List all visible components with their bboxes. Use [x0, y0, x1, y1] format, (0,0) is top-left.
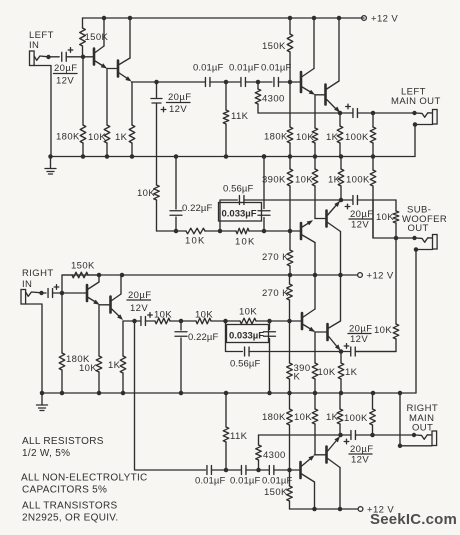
svg-text:0.56µF: 0.56µF — [223, 184, 253, 195]
svg-text:0.01µF: 0.01µF — [229, 63, 259, 74]
node 4300 junction — [256, 468, 261, 473]
node subwoofer mix left — [339, 198, 344, 203]
terminal +12V bottom — [358, 507, 363, 512]
wire ground bus y393 — [42, 392, 416, 394]
transistor Q10 — [326, 324, 329, 340]
resistor R33 4300 — [258, 460, 260, 470]
svg-text:10K: 10K — [294, 412, 312, 423]
svg-text:150K: 150K — [71, 261, 95, 272]
svg-text:12V: 12V — [130, 303, 148, 314]
resistor R8 150K — [289, 18, 291, 34]
resistor R25 1K — [122, 321, 124, 356]
node Q11 base — [287, 468, 292, 473]
resistor R23 180K — [61, 293, 63, 353]
svg-text:0.033µF: 0.033µF — [222, 209, 257, 220]
svg-text:10K: 10K — [88, 132, 106, 143]
svg-text:390K: 390K — [262, 175, 286, 186]
resistor R9 180K — [289, 82, 291, 127]
transistor Q12 — [325, 447, 328, 463]
capacitor C10 20uF subwoofer — [341, 199, 353, 201]
svg-text:0.01µF: 0.01µF — [195, 476, 225, 487]
junction dots ground bus bottom — [60, 391, 65, 396]
capacitor C6 20uF output — [340, 112, 353, 114]
svg-text:10K: 10K — [137, 188, 155, 199]
node Q4 emitter out — [338, 111, 343, 116]
svg-text:10K: 10K — [374, 325, 392, 336]
svg-text:+12 V: +12 V — [371, 14, 398, 25]
wire Q5 emitter node — [315, 218, 325, 220]
svg-text:0.033µF: 0.033µF — [229, 331, 264, 342]
resistor R27 10K horizontal — [196, 318, 211, 324]
svg-text:IN: IN — [22, 279, 32, 290]
svg-text:10K: 10K — [295, 175, 313, 186]
wire jack sleeve to ground — [415, 125, 433, 157]
capacitor C4 0.01uF — [241, 78, 246, 87]
transistor Q1 — [93, 49, 96, 65]
resistor R5 10K vertical — [154, 185, 160, 200]
svg-text:10K: 10K — [235, 237, 256, 248]
resistor R10 10K — [314, 95, 316, 128]
svg-text:1K: 1K — [115, 132, 128, 143]
wire long feed to bottom amp — [135, 321, 206, 470]
capacitor C11 20uF input — [44, 292, 47, 294]
capacitor C20 20uF output — [341, 434, 352, 436]
svg-text:1/2 W, 5%: 1/2 W, 5% — [22, 448, 70, 459]
resistor R24 10K — [98, 305, 100, 356]
resistor R26 10K horizontal — [155, 318, 170, 324]
svg-text:150K: 150K — [85, 32, 109, 43]
svg-text:150K: 150K — [264, 487, 288, 498]
svg-text:10K: 10K — [296, 132, 314, 143]
resistor R37 1K — [339, 393, 341, 409]
svg-text:100K: 100K — [346, 175, 370, 186]
svg-text:SeekIC.com: SeekIC.com — [370, 511, 457, 528]
svg-text:+12 V: +12 V — [367, 271, 394, 282]
wire — [245, 81, 272, 83]
node 0.22 junction — [179, 319, 184, 324]
svg-text:100K: 100K — [344, 413, 368, 424]
resistor R29 390K — [289, 321, 291, 363]
resistor R19 270K — [289, 231, 291, 250]
resistor R6 11K — [225, 82, 227, 110]
svg-text:0.22µF: 0.22µF — [188, 332, 218, 343]
resistor R4 1K — [131, 82, 133, 125]
transistor Q6 — [325, 211, 328, 227]
node 100K junction — [370, 433, 375, 438]
resistor R31 1K — [340, 352, 342, 364]
svg-text:MAIN OUT: MAIN OUT — [391, 96, 441, 107]
wire — [249, 230, 300, 232]
resistor R22 150K bias — [62, 275, 72, 293]
resistor R15 390K — [289, 157, 291, 170]
resistor R32 11K — [225, 393, 227, 427]
svg-text:0.01µF: 0.01µF — [230, 476, 260, 487]
node 0.56 riser — [218, 229, 223, 234]
wire filter line y231 — [157, 230, 187, 232]
svg-text:OUT: OUT — [412, 423, 433, 434]
svg-text:12V: 12V — [350, 334, 368, 345]
node 11K junction — [224, 80, 229, 85]
svg-text:270 K: 270 K — [262, 252, 289, 263]
svg-text:OUT: OUT — [408, 223, 429, 234]
wire out line y435 — [259, 434, 341, 436]
resistor R28 270K — [289, 275, 291, 284]
ground symbol right — [40, 391, 45, 396]
junction dots rail — [97, 273, 102, 278]
svg-text:12V: 12V — [351, 220, 369, 231]
resistor R21 10K from right channel — [395, 238, 397, 324]
wire — [246, 469, 270, 471]
capacitor C14 0.56uF — [245, 347, 250, 356]
svg-text:1K: 1K — [326, 132, 339, 143]
transistor Q7 — [86, 285, 89, 301]
resistor R17 1K — [340, 157, 342, 170]
svg-text:1K: 1K — [345, 367, 358, 378]
wire — [211, 320, 240, 322]
wire Q9 emitter to Q10 base — [315, 331, 326, 333]
wire — [256, 320, 301, 322]
node 20uF junction — [154, 80, 159, 85]
node subwoofer mix right — [339, 349, 344, 354]
resistor R12 100K — [372, 113, 374, 127]
capacitor C17 0.01uF — [207, 466, 212, 475]
jack J1 left input — [30, 51, 35, 66]
svg-text:0.01µF: 0.01µF — [262, 476, 292, 487]
wire — [145, 320, 155, 322]
svg-text:ALL TRANSISTORS: ALL TRANSISTORS — [22, 501, 117, 512]
resistor R16 10K — [314, 157, 316, 170]
wire subwoofer line y238 — [373, 200, 413, 238]
node long feed junction — [132, 319, 137, 324]
wire ground bus y156 — [51, 156, 416, 158]
wire Q11 to Q12 base — [315, 454, 326, 456]
resistor R35 150K — [289, 470, 291, 486]
resistor R20 10K to subwoofer — [395, 200, 397, 211]
capacitor C5 0.01uF — [274, 78, 279, 87]
svg-text:180K: 180K — [262, 412, 286, 423]
node — [224, 468, 229, 473]
resistor R18 100K — [372, 157, 374, 171]
terminal +12V top — [362, 16, 367, 21]
node Q7 base — [60, 291, 65, 296]
capacitor C3 0.01uF — [205, 78, 210, 87]
svg-text:10K: 10K — [79, 363, 97, 374]
svg-text:10K: 10K — [318, 367, 336, 378]
resistor R11 1K — [339, 113, 341, 126]
jack J5 right main out — [373, 434, 413, 436]
svg-text:10K: 10K — [185, 236, 206, 247]
svg-text:12V: 12V — [56, 76, 74, 87]
transistor Q8 — [109, 297, 112, 313]
wire Q3 emitter to Q4 base — [315, 94, 324, 96]
jack J3 subwoofer out — [433, 235, 438, 250]
svg-text:12V: 12V — [169, 104, 187, 115]
ground symbol left — [48, 154, 53, 159]
svg-text:0.01µF: 0.01µF — [261, 63, 291, 74]
transistor Q11 — [299, 462, 302, 478]
wire C1 to base node — [66, 56, 93, 58]
wire jack sleeve to ground — [400, 393, 432, 446]
transistor Q5 — [300, 223, 303, 239]
svg-text:20µF: 20µF — [168, 92, 191, 103]
junction dots ground bus — [81, 154, 86, 159]
jack J4 right input — [21, 290, 26, 305]
svg-text:1K: 1K — [326, 412, 339, 423]
resistor R39 10K horizontal — [240, 318, 256, 324]
svg-text:ALL NON-ELECTROLYTIC: ALL NON-ELECTROLYTIC — [21, 473, 148, 484]
resistor R3 10K emitter — [106, 69, 108, 126]
transistor Q2 — [117, 61, 120, 77]
resistor R13 10K horizontal — [186, 228, 205, 234]
svg-text:4300: 4300 — [262, 94, 285, 105]
node 4300 junction — [256, 80, 261, 85]
wire — [278, 81, 300, 83]
wire +12V rail top — [83, 17, 365, 19]
wire jack tip to C1 — [51, 56, 60, 58]
resistor R36 10K — [314, 393, 316, 409]
svg-text:1K: 1K — [108, 360, 121, 371]
terminal +12V middle — [358, 273, 363, 278]
svg-text:10K: 10K — [239, 307, 257, 318]
capacitor C18 0.01uF — [241, 466, 246, 475]
capacitor C19 0.01uF — [269, 466, 274, 475]
svg-text:K: K — [294, 372, 301, 383]
transistor Q9 — [301, 313, 304, 329]
transistor Q3 — [300, 72, 303, 92]
wire left jack sleeve — [34, 66, 51, 157]
wire Q7 emitter to Q8 base — [100, 304, 110, 306]
node Q3 base — [288, 80, 293, 85]
svg-text:ALL RESISTORS: ALL RESISTORS — [22, 436, 104, 447]
wire — [274, 469, 299, 471]
svg-text:11K: 11K — [230, 431, 248, 442]
resistor R38 100K — [372, 393, 374, 409]
resistor R2 180K — [82, 57, 84, 125]
svg-text:0.56µF: 0.56µF — [230, 359, 260, 370]
wire right jack sleeve — [26, 304, 42, 393]
svg-text:4300: 4300 — [263, 450, 286, 461]
svg-text:12V: 12V — [351, 455, 369, 466]
wire signal line y82 — [132, 81, 205, 83]
svg-text:RIGHT: RIGHT — [22, 268, 54, 279]
resistor R7 4300 — [257, 82, 259, 89]
capacitor C15 0.033uF boxed label — [267, 319, 272, 324]
wire — [211, 469, 240, 471]
node 0.56 riser bottom — [223, 319, 228, 324]
resistor R34 180K — [289, 393, 291, 409]
svg-text:100K: 100K — [345, 132, 369, 143]
wire C2 down to 10K — [156, 103, 158, 185]
transistor Q4 — [324, 85, 327, 105]
wire — [210, 81, 240, 83]
wire jack sleeve to ground bus — [416, 250, 433, 394]
capacitor C2 20uF to filter — [156, 82, 158, 98]
capacitor C8 0.56uF — [239, 196, 244, 205]
node Q9 base line — [287, 319, 292, 324]
svg-text:180K: 180K — [264, 132, 288, 143]
capacitor C16 20uF subwoofer right — [341, 351, 351, 353]
svg-text:270 K: 270 K — [262, 288, 289, 299]
svg-text:0.22µF: 0.22µF — [182, 203, 212, 214]
wire out line y113 — [258, 112, 340, 114]
capacitor C13 0.22uF — [180, 321, 182, 330]
svg-text:10K: 10K — [376, 212, 394, 223]
svg-text:11K: 11K — [231, 111, 249, 122]
svg-text:10K: 10K — [195, 310, 213, 321]
jack J2 left main out — [373, 112, 413, 114]
svg-text:180K: 180K — [56, 132, 80, 143]
wire Q1 emitter node — [107, 68, 117, 70]
wire 0.56 feedback line y200 — [220, 200, 237, 231]
svg-text:CAPACITORS 5%: CAPACITORS 5% — [22, 485, 107, 496]
node filter to base — [288, 229, 293, 234]
capacitor C1 20uF input coupling — [62, 52, 67, 61]
svg-text:IN: IN — [29, 40, 39, 51]
resistor R1 150K bias — [82, 18, 84, 28]
node 100K junction — [371, 111, 376, 116]
resistor R30 10K — [314, 332, 316, 363]
wire +12V rail middle — [62, 274, 358, 276]
svg-text:0.01µF: 0.01µF — [193, 63, 223, 74]
capacitor C12 20uF — [141, 317, 146, 326]
wire 0.56 line y351 — [226, 321, 243, 352]
capacitor C7 0.22uF — [174, 229, 179, 234]
node out — [338, 433, 343, 438]
svg-text:20µF: 20µF — [54, 63, 77, 74]
wire signal line y321 — [123, 320, 140, 322]
resistor R14 10K horizontal — [236, 228, 249, 234]
svg-text:150K: 150K — [262, 41, 286, 52]
capacitor C9 0.033uF boxed label — [262, 154, 267, 159]
wire +12V rail bottom — [290, 508, 359, 510]
svg-text:10K: 10K — [154, 310, 172, 321]
svg-text:1K: 1K — [328, 175, 341, 186]
node base Q1 — [81, 55, 86, 60]
svg-text:2N2925, OR EQUIV.: 2N2925, OR EQUIV. — [22, 513, 118, 524]
